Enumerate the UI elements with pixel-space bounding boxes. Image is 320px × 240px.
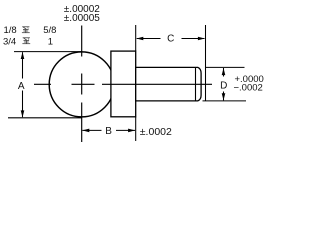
svg-text:1/8: 1/8 <box>4 25 17 36</box>
svg-text:A: A <box>18 81 25 92</box>
svg-text:3/4: 3/4 <box>3 36 16 47</box>
svg-text:C: C <box>167 34 174 45</box>
svg-text:B: B <box>105 126 112 137</box>
svg-text:−.0002: −.0002 <box>234 82 263 93</box>
svg-text:5/8: 5/8 <box>43 25 56 36</box>
svg-text:±.0002: ±.0002 <box>140 126 172 138</box>
svg-text:±.00005: ±.00005 <box>64 13 101 24</box>
svg-text:D: D <box>220 80 227 91</box>
svg-text:1: 1 <box>48 36 53 47</box>
